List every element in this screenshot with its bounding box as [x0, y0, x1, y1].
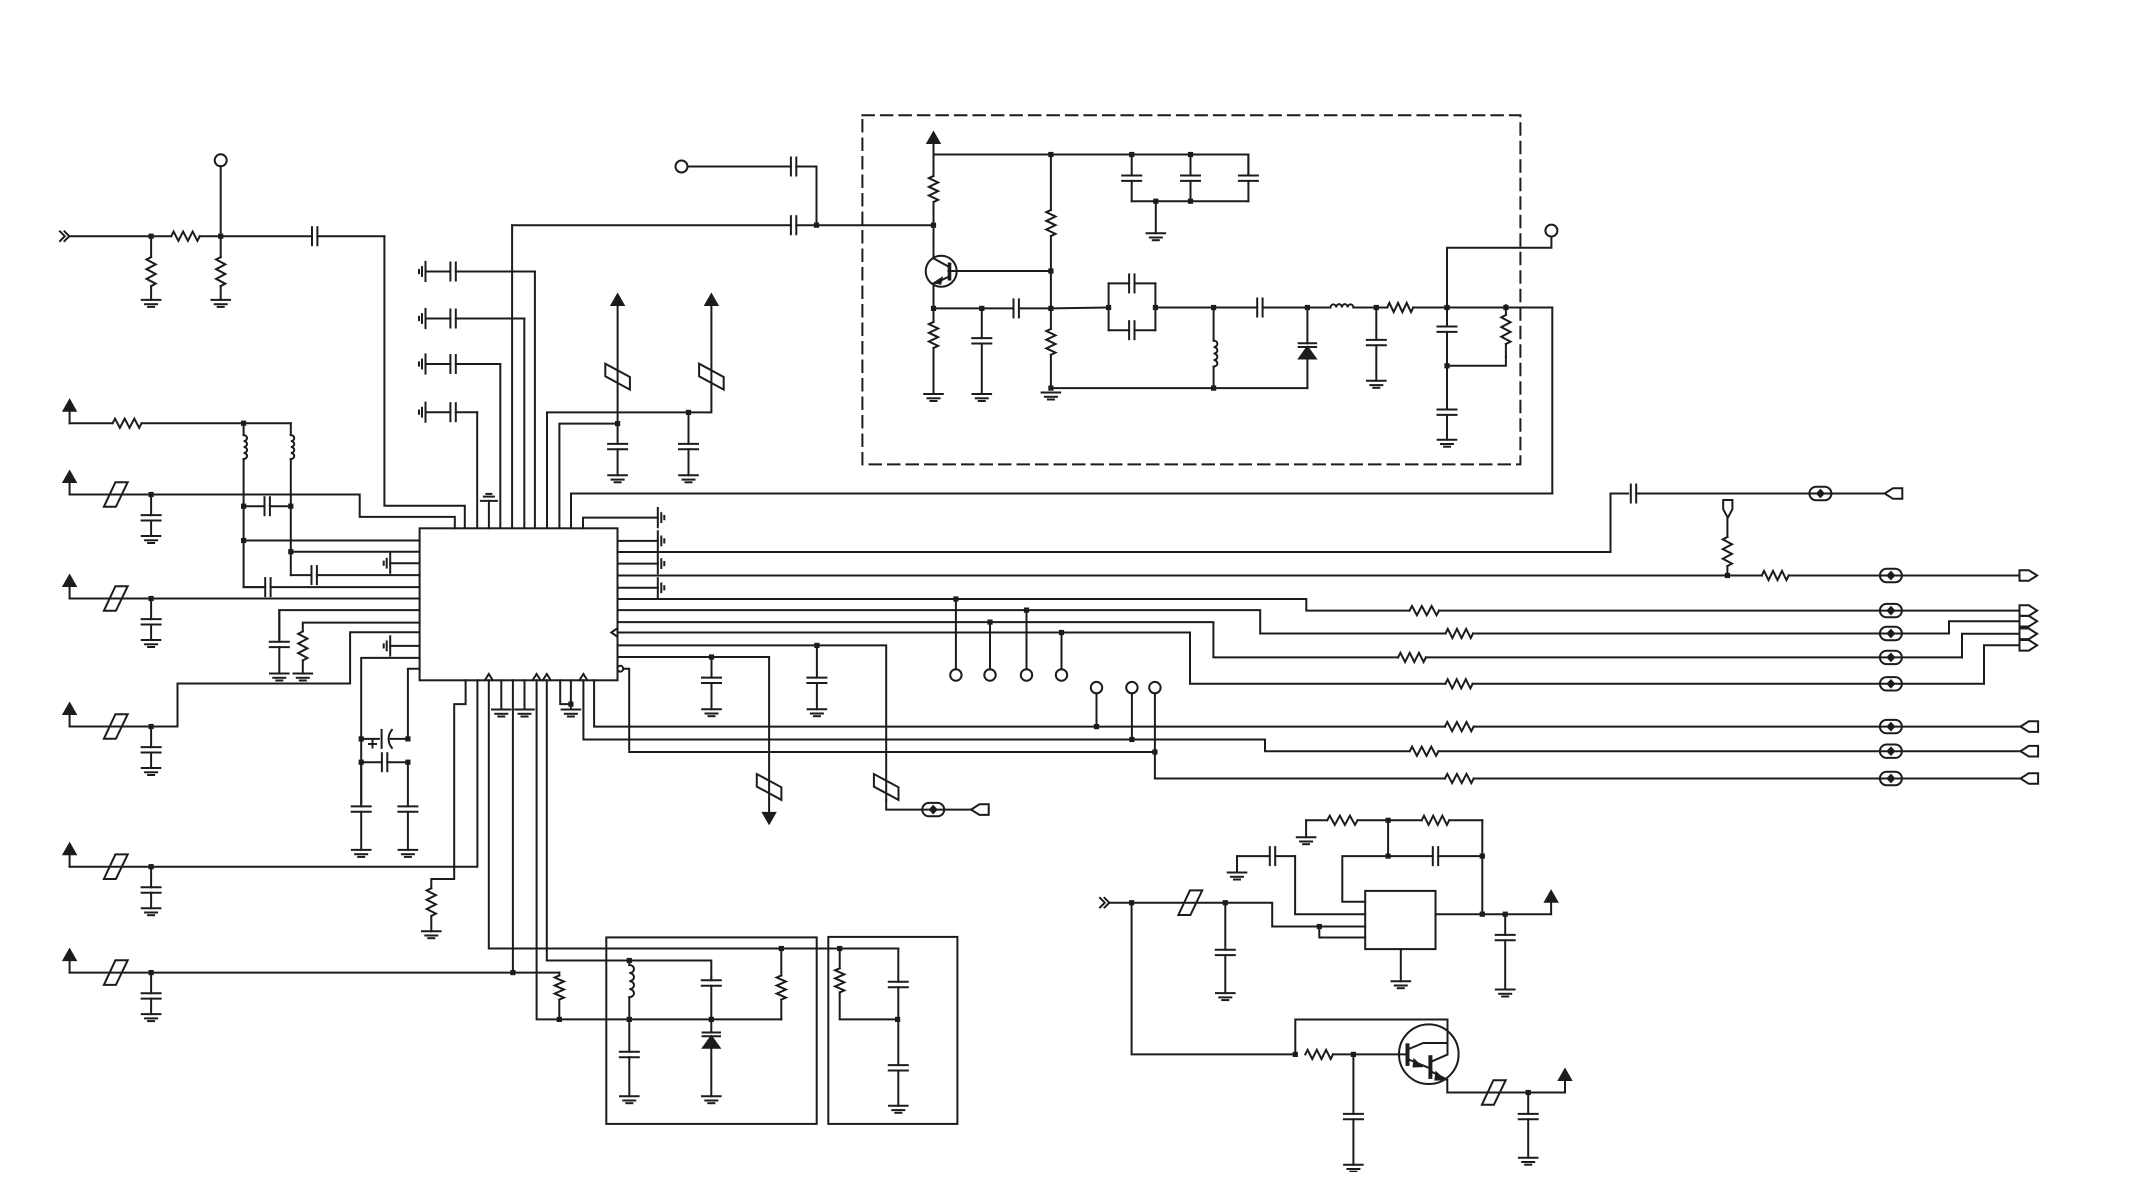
wire VB to junction	[70, 494, 152, 496]
wire VCC3 rail	[934, 154, 1249, 156]
ground for C30	[808, 709, 827, 716]
ferrite bead FB16	[1482, 1080, 1506, 1105]
bypass cap-gnd pin 4	[583, 508, 664, 528]
wire U2 pin3 loop	[1319, 927, 1365, 938]
junction C37 right	[1480, 854, 1485, 859]
junction VB	[149, 492, 154, 497]
wire C1 to U1 pin	[384, 236, 464, 528]
resistor R17	[1398, 653, 1962, 662]
ground for R12	[422, 931, 441, 938]
resistor R18	[1445, 679, 1984, 688]
inductor L5	[629, 961, 634, 1020]
resistor R14	[1727, 571, 2019, 580]
wire R24 bottom	[840, 992, 898, 1019]
junction Q1 emitter node	[931, 306, 936, 311]
junction C10 node	[979, 306, 984, 311]
junction Ctrio gnd	[1153, 199, 1158, 204]
capacitor C1	[221, 227, 385, 245]
junction L1 bottom	[1211, 386, 1216, 391]
wire C2 to U1	[534, 272, 536, 529]
ferrite bead FB7	[1880, 651, 1902, 664]
wire U2 out	[1436, 913, 1506, 915]
junction C18 top	[1374, 305, 1379, 310]
inductor L2	[1307, 304, 1376, 307]
bypass cap-gnd pin 3	[618, 578, 665, 597]
wire C5 to U1	[476, 412, 478, 528]
resistor R3	[216, 236, 225, 300]
capacitor C38	[1237, 847, 1295, 865]
capacitor C5	[426, 403, 478, 421]
varactor diode D1	[1299, 308, 1316, 389]
capacitor VE	[142, 867, 161, 909]
wire node C down to U1	[511, 225, 513, 528]
ground for C39	[1496, 990, 1515, 997]
bus DATA3	[618, 610, 1446, 633]
ground for C20	[1438, 440, 1457, 447]
filter box FL2	[828, 937, 957, 1124]
ferrite bead VB	[104, 482, 128, 507]
ferrite bead VC	[104, 586, 128, 611]
ferrite bead FB11	[757, 774, 782, 800]
power arrow VE	[64, 844, 76, 867]
capacitor C29	[1631, 485, 1885, 503]
wire LA to L4	[244, 422, 291, 424]
junction LA-L3	[241, 421, 246, 426]
junction varactor top	[1305, 305, 1310, 310]
input pin arrow mark	[611, 628, 617, 636]
capacitor C24	[270, 610, 289, 673]
capacitor C14	[1239, 155, 1258, 202]
wire TP9 stem	[1131, 693, 1133, 739]
junction VC	[149, 596, 154, 601]
terminal TP2	[676, 161, 688, 173]
wire VC to U1	[151, 598, 420, 600]
wire pin465	[431, 680, 465, 888]
wire VF right	[151, 972, 559, 974]
wire FB6 to J4	[1949, 621, 2020, 633]
capacitor C30	[807, 645, 826, 709]
crystal loop left	[1108, 283, 1110, 330]
wire gnd pin jog	[560, 680, 571, 704]
junction osc gnd rail	[1048, 386, 1053, 391]
wire TP6 stem	[1026, 610, 1028, 669]
ground for C trio	[1147, 201, 1166, 240]
ferrite bead FB9	[874, 774, 899, 800]
junction Q2 fb node	[1293, 1052, 1298, 1057]
capacitor C13	[1181, 155, 1200, 202]
wire to Q1 collector	[933, 225, 935, 257]
clock pin mark at x=546.8	[543, 674, 551, 680]
bus CTRL1	[594, 680, 1445, 726]
ferrite bead FB13	[1880, 745, 1902, 758]
resistor R5	[929, 308, 938, 394]
ground for C24	[270, 674, 289, 681]
clock pin mark at x=488.8	[485, 674, 493, 680]
wire to VCC5	[1528, 1092, 1565, 1094]
connector J9	[2021, 746, 2039, 757]
connector J2	[2020, 570, 2038, 581]
ground for C4	[419, 354, 426, 373]
capacitor VD	[142, 727, 161, 769]
junction L5 bottom	[627, 1017, 632, 1022]
junction VF	[149, 970, 154, 975]
ground for C40	[1344, 1165, 1363, 1172]
junction FL2 R top	[837, 946, 842, 951]
junction Cpol left	[359, 736, 364, 741]
resistor R27	[1305, 1050, 1353, 1059]
capacitor VB	[142, 495, 161, 537]
ground for C36	[1216, 993, 1235, 1000]
capacitor C36	[1216, 903, 1235, 993]
wire emitter to C10	[934, 307, 982, 309]
junction IN2 node	[1129, 900, 1134, 905]
ferrite bead VD	[104, 714, 128, 739]
wire fb to U2 adj	[1342, 856, 1388, 902]
junction osc out node E	[1444, 305, 1449, 310]
capacitor C2	[426, 263, 535, 281]
connector J6	[2020, 640, 2038, 651]
power arrow VDN	[763, 800, 775, 824]
wire base lead Q2	[1353, 1053, 1405, 1055]
ferrite bead FB12	[1880, 720, 1902, 733]
bus AUX1	[618, 645, 887, 800]
polarized capacitor C25	[361, 730, 408, 748]
ground pin stub 2	[515, 680, 534, 716]
power arrow VCC1	[612, 295, 624, 306]
capacitor C15 (res top)	[1109, 274, 1156, 292]
junction U1 pin LNA2	[288, 549, 293, 554]
power arrow VCC3	[928, 133, 940, 155]
wire VC to junction	[70, 598, 152, 600]
ground for C7	[679, 475, 698, 482]
ground for C38	[1228, 856, 1247, 879]
ferrite bead FB5	[1880, 604, 1902, 617]
capacitor C18	[1367, 308, 1386, 381]
ground for R5	[924, 394, 943, 401]
ground for C6	[608, 475, 627, 482]
ferrite bead FB15	[1178, 890, 1202, 915]
IC U1 (main transceiver)	[420, 528, 618, 680]
ferrite bead FB14	[1880, 772, 1902, 785]
junction L1 top	[1211, 305, 1216, 310]
ground for C35	[889, 1106, 908, 1113]
wire pin512 down	[512, 680, 514, 972]
resistor R4	[929, 155, 938, 226]
wire node D to crystal	[1051, 307, 1109, 310]
wire rail VCC2 to U1	[547, 412, 689, 528]
junction node C	[814, 223, 819, 228]
terminal TP1	[215, 154, 227, 166]
capacitor C23	[244, 578, 420, 596]
junction U2 out a	[1480, 912, 1485, 917]
wire node E to osc output	[1447, 308, 1552, 494]
ground pin stub 3	[562, 680, 581, 716]
resistor R15	[1410, 606, 2020, 615]
test point TP4	[950, 669, 961, 680]
ferrite bead FB3	[1809, 487, 1831, 500]
junction VCC2 rail	[686, 410, 691, 415]
wire C4 to U1	[499, 364, 501, 528]
wire VD to junction	[70, 726, 152, 728]
bus CTRL3 from inverted pin	[623, 669, 1155, 752]
wire VD to U1 pin632	[151, 632, 420, 726]
capacitor C31	[702, 657, 721, 709]
capacitor C10	[972, 308, 991, 394]
wire node C to Q1 base node	[817, 224, 934, 226]
junction crystal left	[1106, 305, 1111, 310]
diode D2	[703, 1019, 720, 1096]
power arrow VA	[64, 400, 76, 423]
resistor R1	[147, 236, 156, 300]
resistor R8	[1376, 303, 1447, 312]
junction U1 pin LNA1	[241, 538, 246, 543]
inverted pin circle	[617, 666, 623, 672]
wire Cpol col1 down	[360, 739, 362, 804]
wire C38 to U2 pin	[1295, 856, 1365, 914]
ferrite bead VF	[104, 960, 128, 985]
junction C26 left	[359, 760, 364, 765]
ground for D2	[702, 1096, 721, 1103]
ground U2 tab	[1392, 949, 1411, 988]
wire pin488 to FL1/FL2	[489, 680, 899, 948]
wire Ctrio bottom rail	[1132, 200, 1249, 202]
wire pin546 to FL1	[547, 680, 712, 977]
junction U2 out b	[1503, 912, 1508, 917]
capacitor C16 (res bottom)	[1109, 321, 1156, 339]
capacitor C37	[1388, 847, 1482, 865]
test point TP9	[1126, 682, 1137, 693]
junction VF pin512	[510, 970, 515, 975]
wire pin551	[291, 551, 420, 553]
clock pin mark at x=536.6	[533, 674, 541, 680]
wire pin536 to rail	[537, 680, 782, 1019]
capacitor C3	[426, 310, 525, 328]
test point TP6	[1021, 669, 1032, 680]
wire Q2 emitter	[1447, 1080, 1528, 1093]
wire to U2 in	[1225, 903, 1319, 927]
junction C32 bottom	[709, 1017, 714, 1022]
junction TP8 stem	[1094, 724, 1099, 729]
junction TP10 stem	[1152, 749, 1157, 754]
wire TP3 to node E	[1447, 237, 1551, 308]
wire crystal to L1 node	[1155, 307, 1213, 309]
wire IN2 to C36	[1132, 902, 1226, 904]
wire Q1 emitter	[933, 286, 935, 308]
capacitor C6	[608, 424, 627, 476]
connector J4	[2020, 616, 2038, 627]
power arrow VCC2	[705, 295, 717, 306]
net label flag	[1723, 500, 1732, 518]
resistor R19	[1445, 722, 2021, 731]
ferrite bead FB10	[922, 803, 944, 816]
junction C21 left	[241, 504, 246, 509]
connector J8	[2021, 721, 2039, 732]
junction Q1 base node	[931, 223, 936, 228]
wire R9 bottom to node F	[1447, 357, 1506, 366]
ground VD	[142, 768, 161, 775]
wire pin610	[279, 610, 419, 639]
input connector IN1 (antenna)	[60, 231, 69, 241]
wire out to VCC4	[1505, 913, 1551, 915]
connector J3	[2020, 605, 2038, 616]
wire TP5 stem	[989, 622, 991, 669]
junction C41 node	[1526, 1090, 1531, 1095]
capacitor C28	[398, 762, 417, 850]
wire C8 to node C	[816, 167, 818, 226]
ground for C33	[620, 1096, 639, 1103]
junction R25/R26	[1386, 818, 1391, 823]
connector J7	[971, 804, 989, 815]
wire TP7 stem	[1061, 633, 1063, 670]
junction R4a top	[1048, 152, 1053, 157]
capacitor C26	[361, 753, 408, 771]
wire IN2	[1109, 902, 1131, 904]
ground for C10	[973, 394, 992, 401]
resistor R10	[70, 419, 244, 428]
junction Cpol right	[405, 736, 410, 741]
IC U2 (regulator)	[1365, 891, 1435, 949]
input connector IN2	[1100, 898, 1109, 908]
test point TP7	[1056, 669, 1067, 680]
junction gnd pin	[568, 702, 573, 707]
capacitor C22	[291, 566, 420, 584]
bus IF out	[618, 494, 1629, 553]
junction Ctrio b2	[1188, 199, 1193, 204]
wire osc gnd rail	[1051, 387, 1308, 389]
ground for C3	[419, 309, 426, 328]
connector J1	[1885, 488, 1903, 499]
ground VC	[142, 640, 161, 647]
capacitor C34	[889, 949, 908, 1020]
resistor R26	[1388, 816, 1482, 825]
bypass cap-gnd pin 5	[384, 554, 420, 573]
ground symbol top pin	[481, 494, 497, 528]
resistor R7	[1046, 271, 1055, 388]
ferrite bead FB6	[1880, 627, 1902, 640]
junction C30 node	[814, 643, 819, 648]
ground VB	[142, 536, 161, 543]
ground for C28	[399, 850, 418, 857]
junction TP7 stem	[1059, 630, 1064, 635]
capacitor C7	[679, 412, 698, 475]
junction Ctrio b	[1188, 152, 1193, 157]
capacitor C11	[982, 299, 1051, 317]
bypass cap-gnd pin 6	[384, 636, 420, 655]
connector J10	[2021, 773, 2039, 784]
wire VB to U1	[151, 495, 455, 529]
ground for R7	[1042, 393, 1061, 400]
junction R22 bottom	[557, 1017, 562, 1022]
test point TP8	[1091, 682, 1102, 693]
resistor R2	[151, 232, 221, 241]
resistor R21	[1445, 774, 2021, 783]
connector J5	[2020, 629, 2038, 640]
junction TP5 stem	[987, 620, 992, 625]
junction L5 top	[627, 958, 632, 963]
junction C21 right	[288, 504, 293, 509]
wire TP4 stem	[955, 599, 957, 669]
ground for C27	[352, 850, 371, 857]
junction C26 right	[405, 760, 410, 765]
junction C31 node	[709, 654, 714, 659]
capacitor C9	[512, 216, 814, 234]
capacitor C33	[620, 1019, 639, 1096]
ground for R1	[142, 300, 161, 307]
junction net label	[1725, 573, 1730, 578]
capacitor VF	[142, 973, 161, 1015]
resistor R23 (FL1)	[777, 949, 786, 1020]
wire TP10 stem	[1155, 693, 1445, 778]
bus AUX2	[618, 657, 770, 800]
ferrite bead FB8	[1880, 677, 1902, 690]
junction VCC1 rail	[615, 421, 620, 426]
resistor R20	[1410, 747, 2021, 756]
capacitor C12	[1122, 155, 1141, 202]
ground for C31	[702, 709, 721, 716]
bypass cap-gnd pin 2	[618, 554, 665, 573]
junction osc node D	[1048, 306, 1053, 311]
ferrite bead FB1	[605, 364, 630, 390]
transistor Q1	[926, 256, 957, 287]
capacitor C4	[426, 355, 501, 373]
clock pin mark at x=583.4	[579, 674, 587, 680]
inductor L1	[1214, 308, 1218, 389]
capacitor C20	[1438, 366, 1457, 440]
wire L4 col down	[290, 506, 292, 575]
capacitor VC	[142, 599, 161, 641]
wire VE to U1 pin bottom	[151, 680, 477, 866]
resistor R11	[298, 631, 307, 673]
junction TP9 stem	[1129, 737, 1134, 742]
wire pin540	[244, 540, 420, 542]
capacitor C39	[1496, 914, 1515, 989]
ferrite bead VE	[104, 854, 128, 879]
wire IN2 to Q2 base row	[1132, 903, 1296, 1055]
bus DATA2	[618, 599, 1410, 611]
ground VE	[142, 908, 161, 915]
junction Ctrio a	[1129, 152, 1134, 157]
junction C36 node	[1223, 900, 1228, 905]
capacitor C32	[702, 978, 721, 1020]
wire TP1 to node B	[220, 166, 222, 236]
resistor R25	[1306, 816, 1388, 825]
bus CTRL2	[583, 680, 1409, 751]
bus DATA1	[618, 575, 1728, 577]
junction R9 top	[1503, 305, 1508, 310]
junction U2 in	[1317, 924, 1322, 929]
wire rail VCC1 to U1	[559, 424, 617, 529]
capacitor C41	[1519, 1093, 1538, 1158]
wire R26 to out	[1481, 820, 1483, 914]
inductor L4	[291, 423, 294, 506]
bypass cap-gnd pin 1	[618, 531, 665, 550]
junction VE	[149, 864, 154, 869]
power arrow VD	[64, 704, 76, 727]
ground for C18	[1367, 381, 1386, 388]
capacitor C40	[1344, 1054, 1363, 1164]
wire VE to junction	[70, 866, 152, 868]
power arrow VC	[64, 576, 76, 599]
wire fb node	[1387, 820, 1389, 856]
ground for C2	[419, 262, 426, 281]
capacitor C27	[352, 762, 371, 850]
ferrite bead FB4	[1880, 569, 1902, 582]
wire VCC1 to rail	[617, 304, 619, 424]
bus DATA4	[618, 622, 1399, 657]
resistor R22	[555, 973, 564, 1020]
resistor R24 (FL2)	[835, 949, 844, 993]
capacitor C21	[244, 497, 291, 515]
